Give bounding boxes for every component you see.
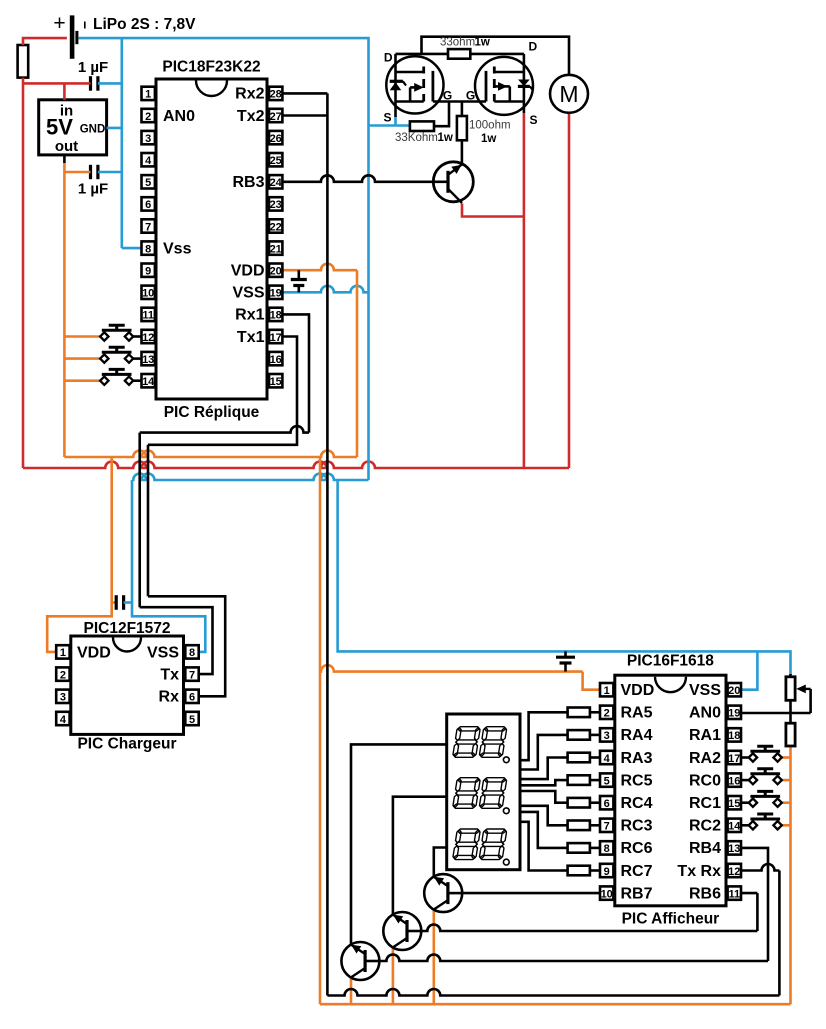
wire blue GND lead bbox=[107, 127, 123, 130]
svg-text:9: 9 bbox=[604, 866, 610, 878]
wire orange T3 emitter bbox=[350, 979, 353, 1005]
svg-text:15: 15 bbox=[728, 798, 740, 810]
resistor R4 bbox=[561, 753, 601, 763]
svg-text:1w: 1w bbox=[475, 37, 490, 49]
wire display seg6 bbox=[520, 806, 561, 826]
svg-text:1 µF: 1 µF bbox=[78, 59, 108, 76]
svg-text:1: 1 bbox=[60, 647, 66, 659]
wire gate to 33K bbox=[434, 102, 449, 127]
svg-text:14: 14 bbox=[728, 821, 741, 833]
svg-text:VDD: VDD bbox=[621, 682, 655, 699]
wire display seg2 bbox=[520, 735, 561, 770]
capacitor C4 bbox=[112, 595, 132, 610]
svg-text:RC6: RC6 bbox=[621, 840, 653, 857]
svg-text:3: 3 bbox=[604, 730, 610, 742]
svg-text:17: 17 bbox=[270, 332, 282, 344]
svg-text:GND: GND bbox=[80, 124, 106, 136]
wire blue C2 lead bbox=[98, 171, 122, 174]
svg-text:Rx: Rx bbox=[159, 689, 180, 706]
svg-text:LiPo 2S : 7,8V: LiPo 2S : 7,8V bbox=[93, 16, 196, 33]
svg-text:6: 6 bbox=[604, 798, 610, 810]
svg-text:2: 2 bbox=[60, 669, 66, 681]
svg-text:PIC Afficheur: PIC Afficheur bbox=[622, 911, 720, 928]
svg-text:4: 4 bbox=[60, 714, 67, 726]
svg-text:13: 13 bbox=[728, 843, 740, 855]
push button S4 bbox=[741, 746, 782, 762]
wire orange T1 emitter bbox=[432, 911, 435, 1005]
push button S3 bbox=[100, 369, 141, 385]
svg-text:RB3: RB3 bbox=[232, 174, 264, 191]
svg-text:3: 3 bbox=[60, 692, 66, 704]
wire RB7 to Q4 base bbox=[462, 892, 600, 895]
svg-text:S: S bbox=[530, 113, 538, 127]
resistor R9 bbox=[561, 866, 601, 876]
push button S6 bbox=[741, 791, 782, 807]
svg-text:Rx2: Rx2 bbox=[235, 86, 264, 103]
svg-text:VDD: VDD bbox=[77, 644, 111, 661]
svg-text:VSS: VSS bbox=[689, 682, 721, 699]
wire orange long vertical bbox=[319, 457, 322, 1004]
capacitor C2 1uF bbox=[78, 165, 108, 198]
svg-text:5: 5 bbox=[189, 714, 195, 726]
resistor R-pot-low bbox=[786, 723, 795, 746]
svg-text:out: out bbox=[55, 138, 78, 155]
svg-text:17: 17 bbox=[728, 753, 740, 765]
svg-text:5: 5 bbox=[145, 177, 151, 189]
svg-text:D: D bbox=[529, 40, 538, 54]
svg-text:AN0: AN0 bbox=[689, 705, 721, 722]
svg-text:1w: 1w bbox=[438, 132, 453, 144]
svg-text:2: 2 bbox=[145, 111, 151, 123]
svg-text:RA3: RA3 bbox=[621, 750, 653, 767]
svg-text:RB6: RB6 bbox=[689, 885, 721, 902]
wire blue down to chargeur VSS bbox=[132, 480, 205, 652]
resistor R6 bbox=[561, 798, 601, 808]
svg-text:Vss: Vss bbox=[163, 241, 192, 258]
wire gate bus bbox=[433, 100, 486, 103]
wire orange button16 feed bbox=[781, 779, 790, 782]
svg-text:25: 25 bbox=[270, 155, 282, 167]
svg-text:RC3: RC3 bbox=[621, 818, 653, 835]
svg-text:7: 7 bbox=[189, 669, 195, 681]
svg-text:RC1: RC1 bbox=[689, 795, 721, 812]
svg-text:10: 10 bbox=[142, 288, 154, 300]
capacitor C3 bbox=[291, 270, 307, 292]
push button S2 bbox=[100, 347, 141, 363]
svg-text:100ohm: 100ohm bbox=[469, 120, 511, 132]
svg-text:6: 6 bbox=[189, 692, 195, 704]
wire Tx2 pin27 bbox=[282, 114, 328, 117]
svg-text:PIC Chargeur: PIC Chargeur bbox=[77, 736, 176, 753]
wire TxRx bottom rail bbox=[327, 864, 779, 996]
regulator U-5V bbox=[39, 100, 107, 155]
wire orange pot down bbox=[789, 746, 792, 1004]
wire orange T2 emitter bbox=[392, 949, 395, 1005]
wire left MOSFET D bbox=[396, 53, 449, 56]
wire RB4 to Q6 base bbox=[379, 848, 768, 961]
svg-text:Tx Rx: Tx Rx bbox=[677, 863, 721, 880]
transistor Q6 bbox=[341, 942, 379, 980]
wire orange button12 feed bbox=[64, 335, 100, 338]
svg-text:RB4: RB4 bbox=[689, 840, 721, 857]
svg-text:5: 5 bbox=[604, 775, 610, 787]
wire RB6 to Q5 base bbox=[421, 893, 757, 931]
wire display seg3 bbox=[520, 758, 561, 780]
IC U1 PIC18F23K22 bbox=[142, 59, 283, 422]
wire blue C1 lead bbox=[98, 82, 122, 85]
wire Tx1 loop bbox=[148, 337, 297, 697]
wire orange button13 feed bbox=[64, 357, 100, 360]
svg-text:RB7: RB7 bbox=[621, 885, 653, 902]
wire blue battery top rail bbox=[79, 38, 369, 480]
wire orange bottom rail bbox=[320, 1003, 791, 1006]
MOSFET Q3 bbox=[466, 40, 538, 128]
wire blue VSS pin20 bbox=[741, 651, 758, 689]
wire red to C1 and 5V in bbox=[23, 83, 91, 99]
svg-text:4: 4 bbox=[145, 155, 152, 167]
svg-text:RC5: RC5 bbox=[621, 772, 653, 789]
IC U3 PIC16F1618 bbox=[600, 653, 741, 928]
wire blue to MOSFET S bbox=[369, 117, 410, 126]
svg-text:11: 11 bbox=[142, 310, 154, 322]
wire orange button14 feed bbox=[64, 379, 100, 382]
svg-text:24: 24 bbox=[270, 177, 283, 189]
svg-text:RC2: RC2 bbox=[689, 818, 721, 835]
svg-text:VSS: VSS bbox=[232, 285, 264, 302]
svg-text:RA1: RA1 bbox=[689, 727, 721, 744]
svg-text:7: 7 bbox=[604, 821, 610, 833]
svg-text:23: 23 bbox=[270, 199, 282, 211]
wire orange down to chargeur VDD bbox=[47, 457, 112, 652]
wire display com2 bbox=[393, 797, 447, 915]
push button S1 bbox=[100, 325, 141, 341]
svg-text:M: M bbox=[559, 81, 578, 107]
wire drain top loop bbox=[422, 37, 570, 75]
svg-text:VSS: VSS bbox=[147, 644, 179, 661]
svg-text:8: 8 bbox=[189, 647, 195, 659]
svg-text:5V: 5V bbox=[46, 115, 73, 140]
wire display seg1 bbox=[520, 712, 561, 760]
svg-text:19: 19 bbox=[270, 288, 282, 300]
svg-text:PIC12F1572: PIC12F1572 bbox=[83, 620, 170, 637]
svg-text:27: 27 bbox=[270, 111, 282, 123]
svg-text:3: 3 bbox=[145, 133, 151, 145]
resistor R2 bbox=[561, 708, 601, 718]
IC U2 PIC12F1572 bbox=[56, 620, 199, 753]
svg-text:1w: 1w bbox=[481, 133, 496, 145]
svg-text:4: 4 bbox=[604, 753, 611, 765]
svg-text:16: 16 bbox=[728, 775, 740, 787]
svg-text:RC7: RC7 bbox=[621, 863, 653, 880]
svg-text:D: D bbox=[384, 51, 393, 65]
svg-text:RA4: RA4 bbox=[621, 727, 653, 744]
svg-text:18: 18 bbox=[728, 730, 740, 742]
wire Rx2 pin28 bbox=[282, 92, 328, 95]
wire display seg8 bbox=[520, 822, 561, 871]
svg-text:Tx2: Tx2 bbox=[237, 108, 265, 125]
capacitor C5 bbox=[556, 651, 575, 671]
svg-text:8: 8 bbox=[145, 243, 151, 255]
svg-text:2: 2 bbox=[604, 708, 610, 720]
svg-text:33ohm: 33ohm bbox=[440, 37, 475, 49]
svg-text:14: 14 bbox=[142, 376, 155, 388]
transistor Q5 bbox=[383, 912, 421, 950]
svg-text:Tx: Tx bbox=[160, 666, 179, 683]
resistor R-33K bbox=[395, 121, 453, 144]
transistor Q1 bbox=[433, 162, 473, 203]
svg-text:AN0: AN0 bbox=[163, 108, 195, 125]
transistor Q4 bbox=[424, 874, 462, 912]
wire Rx2Tx2 long vertical bbox=[326, 93, 329, 995]
wire red resistor down-left rail bbox=[22, 78, 25, 468]
svg-text:1: 1 bbox=[604, 685, 610, 697]
wire red motor down bbox=[568, 113, 571, 468]
wire blue to Vss pin8 bbox=[122, 247, 142, 250]
svg-text:RC0: RC0 bbox=[689, 772, 721, 789]
svg-text:1 µF: 1 µF bbox=[78, 181, 108, 198]
svg-text:12: 12 bbox=[728, 866, 740, 878]
svg-text:S: S bbox=[383, 111, 391, 125]
svg-text:PIC18F23K22: PIC18F23K22 bbox=[162, 59, 260, 76]
svg-text:19: 19 bbox=[728, 708, 740, 720]
svg-text:VDD: VDD bbox=[231, 263, 265, 280]
svg-text:7: 7 bbox=[145, 221, 151, 233]
push button S5 bbox=[741, 769, 782, 785]
wire blue VSS pin19 bbox=[282, 286, 369, 293]
wire orange button15 feed bbox=[781, 801, 790, 804]
wire red Q1 emitter bbox=[462, 204, 524, 217]
capacitor C1 1uF bbox=[78, 59, 108, 91]
svg-text:+: + bbox=[53, 12, 65, 35]
resistor R-100ohm bbox=[457, 102, 511, 165]
resistor R5 bbox=[561, 775, 601, 785]
resistor R-bat bbox=[18, 45, 29, 78]
MOSFET Q2 bbox=[383, 51, 452, 125]
svg-text:20: 20 bbox=[270, 266, 282, 278]
svg-text:11: 11 bbox=[728, 888, 740, 900]
wire Rx1 loop bbox=[140, 314, 309, 674]
wire orange afficheur VDD branch bbox=[320, 665, 600, 690]
motor M bbox=[550, 75, 588, 113]
svg-text:1: 1 bbox=[145, 89, 151, 101]
display 3x 7-segment bbox=[447, 714, 520, 870]
svg-text:PIC Réplique: PIC Réplique bbox=[164, 404, 260, 421]
wire display seg4 bbox=[520, 780, 561, 785]
wire orange button17 feed bbox=[781, 756, 790, 759]
svg-text:9: 9 bbox=[145, 266, 151, 278]
resistor R7 bbox=[561, 821, 601, 831]
wire 33ohm to right MOSFET D bbox=[470, 53, 524, 56]
wire orange VDD pin20 bbox=[282, 264, 358, 457]
svg-text:8: 8 bbox=[604, 843, 610, 855]
svg-text:28: 28 bbox=[270, 89, 282, 101]
svg-text:20: 20 bbox=[728, 685, 740, 697]
svg-text:Rx1: Rx1 bbox=[235, 307, 264, 324]
wire display com3 bbox=[434, 848, 447, 877]
battery BT1 LiPo 2S bbox=[53, 12, 196, 59]
wire display seg5 bbox=[520, 791, 561, 803]
wire blue branch down at 121.8 bbox=[121, 38, 124, 248]
push button S7 bbox=[741, 814, 782, 830]
wire orange C2 lead bbox=[64, 171, 90, 174]
svg-text:22: 22 bbox=[270, 221, 282, 233]
wire red MOSFET-S down bbox=[523, 113, 526, 468]
wire blue down to afficheur bbox=[338, 480, 791, 677]
svg-text:12: 12 bbox=[142, 332, 154, 344]
svg-text:21: 21 bbox=[270, 243, 282, 255]
wire red bottom bus bbox=[23, 462, 569, 469]
svg-text:10: 10 bbox=[601, 888, 613, 900]
wire RB3 to Q1 base bbox=[282, 175, 435, 181]
svg-text:6: 6 bbox=[145, 199, 151, 211]
svg-text:PIC16F1618: PIC16F1618 bbox=[627, 653, 714, 670]
wire display seg7 bbox=[520, 812, 561, 848]
svg-text:15: 15 bbox=[270, 376, 282, 388]
resistor R3 bbox=[561, 730, 601, 740]
svg-text:RC4: RC4 bbox=[621, 795, 653, 812]
svg-text:Tx1: Tx1 bbox=[237, 329, 265, 346]
wire blue bottom bus bbox=[132, 474, 369, 481]
wire orange bus 457 bbox=[64, 451, 357, 458]
wire orange 5V out rail bbox=[63, 155, 66, 457]
svg-text:18: 18 bbox=[270, 310, 282, 322]
svg-text:16: 16 bbox=[270, 354, 282, 366]
wire display com1 bbox=[351, 744, 447, 944]
svg-text:RA2: RA2 bbox=[689, 750, 721, 767]
svg-text:RA5: RA5 bbox=[621, 705, 653, 722]
wire orange button14b feed bbox=[781, 824, 790, 827]
svg-text:33Kohm: 33Kohm bbox=[395, 132, 438, 144]
svg-text:13: 13 bbox=[142, 354, 154, 366]
svg-text:26: 26 bbox=[270, 133, 282, 145]
potentiometer RV1 bbox=[741, 674, 811, 723]
wire red battery to resistor bbox=[23, 38, 67, 45]
resistor R-33ohm bbox=[440, 37, 490, 59]
resistor R8 bbox=[561, 843, 601, 853]
